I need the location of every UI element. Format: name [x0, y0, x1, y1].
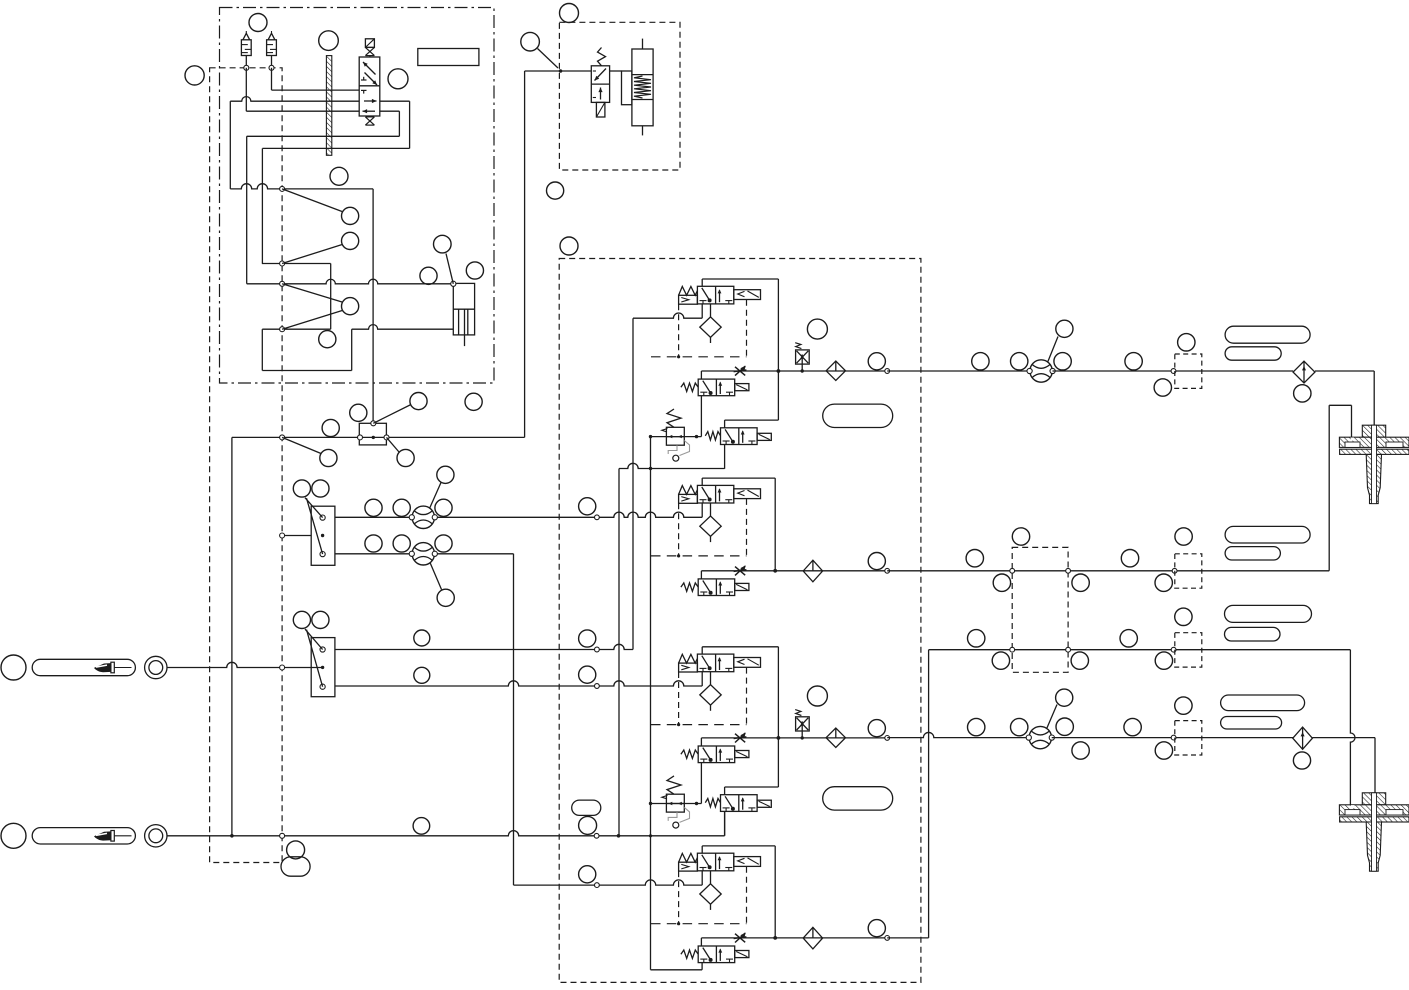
balloon M2 a: [293, 611, 310, 628]
wire leader M1 A: [305, 498, 323, 518]
wire group1 input: [633, 313, 702, 318]
wire leader row3: [282, 284, 342, 302]
valve G2.2 3/2 spring: [698, 579, 735, 596]
balloon M1 a: [293, 480, 310, 497]
label line1 hose big: [1225, 326, 1310, 343]
balloon line3 e: [1175, 608, 1192, 625]
valve G3.3 3/2 spring: [721, 795, 758, 812]
node line2 port3: [1172, 568, 1177, 573]
balloon line4 d: [1124, 718, 1141, 735]
wire supply to valve V1: [230, 97, 359, 102]
regulator G3: [666, 794, 684, 812]
check diamond line1: [1293, 361, 1315, 383]
wire G4 output line: [701, 937, 887, 939]
balloon relief G3: [807, 686, 827, 706]
balloon line554 b: [393, 535, 410, 552]
balloon line517 a: [365, 499, 382, 516]
spring valve V2: [598, 48, 606, 66]
wire leader row4: [282, 311, 342, 330]
balloon tee float a: [350, 404, 367, 421]
node line517 test port: [595, 515, 600, 520]
wire G1 v2 drop: [700, 396, 702, 437]
wire line1 c: [1176, 370, 1293, 372]
node line3 port1: [1010, 647, 1015, 652]
wire line2 riser: [1328, 405, 1330, 571]
node tee center: [372, 436, 375, 439]
flow control FC2: [412, 543, 434, 565]
wire line2 a: [887, 570, 1329, 572]
wire lever2 line: [167, 831, 724, 836]
wire drop x513: [513, 554, 515, 885]
enclosure supply dashed box: [210, 68, 283, 863]
label line3 hose big: [1225, 605, 1312, 622]
wire G2 v1 inlet up: [701, 503, 703, 517]
regulator G1 drain: [668, 445, 677, 454]
balloon above row1: [330, 167, 348, 185]
port quick coupling 2: [145, 825, 167, 847]
wire loop B drop: [246, 136, 248, 283]
filter G4 diamond: [700, 884, 721, 904]
pilot line G4 left: [678, 871, 680, 924]
spring valve G4.1: [679, 853, 698, 862]
wire drop x619: [618, 469, 620, 836]
wire G3 v2 drop: [700, 763, 702, 804]
label line2 hose big: [1225, 526, 1310, 543]
wire G1 bottom line: [619, 463, 725, 468]
solenoid valve G3.1: [734, 658, 761, 668]
wire G1 v2 output: [700, 371, 702, 379]
wire group3 input: [335, 681, 702, 686]
balloon flow control FC1: [437, 466, 454, 483]
enclosure shut-off unit (dashed box): [559, 22, 680, 170]
node G1 output test: [885, 369, 890, 374]
balloon line517 b: [393, 499, 410, 516]
manifold block M2: [311, 638, 335, 697]
wire G1 regulator line: [651, 436, 702, 438]
balloon line3 b: [992, 652, 1009, 669]
label line4 hose big: [1221, 695, 1305, 711]
node shutoff junction: [559, 69, 563, 73]
node tee port top: [371, 421, 376, 426]
label cluster box stadium: [572, 800, 601, 815]
node line3 port3: [1171, 647, 1176, 652]
node lever2 junction: [280, 833, 285, 838]
node line2 port1: [1010, 568, 1015, 573]
balloon cluster left circle: [287, 841, 305, 859]
balloon line3 a: [968, 630, 985, 647]
wire riser x633: [632, 318, 634, 649]
balloon output G4: [868, 920, 885, 937]
spring valve G3.3: [705, 799, 720, 807]
label stadium G3: [823, 787, 893, 810]
wire leader flow control FC4: [1047, 705, 1058, 730]
balloon tee right: [397, 449, 414, 466]
valve G1.3 3/2 spring: [721, 428, 758, 445]
spring valve G2.1: [679, 486, 698, 495]
solenoid V1 upper: [365, 39, 374, 48]
node tee port left: [358, 435, 363, 440]
balloon row2 mid: [413, 818, 430, 835]
wire G3 v3 bottom: [724, 811, 726, 835]
wire G3 v3 top: [724, 787, 726, 795]
balloon lever 1: [1, 655, 26, 680]
filter G2 diamond: [700, 516, 721, 536]
balloon output G2: [868, 553, 885, 570]
wire row2 bus: [262, 263, 331, 265]
balloon row1: [342, 207, 359, 224]
balloon line2 b: [1012, 528, 1029, 545]
spindle nozzle SP1: [1362, 425, 1385, 437]
hand lever 1: [32, 659, 135, 675]
label line4 hose small: [1221, 717, 1282, 730]
wire valve V2 to brake: [610, 70, 622, 72]
wire leader M2 A: [305, 629, 323, 649]
balloon line1 e: [1178, 334, 1195, 351]
valve V2 shut-off 2/2: [591, 66, 609, 103]
wire tee through line: [232, 436, 525, 438]
enclosure line1 small box: [1175, 354, 1202, 388]
wire G4 collector riser: [702, 845, 775, 847]
valve G2.1 3/2 solenoid: [697, 485, 733, 503]
wire row1 bus: [230, 184, 373, 189]
pilot line G4 right: [746, 867, 748, 924]
wire group4 input: [514, 880, 703, 885]
wire loop A drop: [261, 148, 263, 263]
wire G3 v2 output: [700, 738, 702, 746]
solenoid valve G2.2: [735, 583, 749, 590]
node M1 port B: [320, 552, 325, 557]
flow control FC1 port R: [432, 515, 437, 520]
balloon top mufflers: [249, 14, 267, 32]
balloon line4 a: [968, 718, 985, 735]
flow control FC4 port L: [1026, 735, 1031, 740]
balloon cylinder c: [466, 262, 483, 279]
wire G1 output line: [701, 370, 887, 372]
balloon line3 f: [1155, 652, 1172, 669]
node group3 input test: [595, 684, 600, 689]
wire G4 v2 bottom: [701, 963, 703, 970]
check diamond G1: [826, 361, 845, 380]
balloon tee float b: [322, 419, 339, 436]
spring valve G3.1: [679, 654, 698, 663]
wire tee left drop: [231, 437, 233, 835]
regulator G1: [666, 427, 684, 445]
balloon M1 b: [312, 480, 329, 497]
wire row4 to cylinder: [352, 325, 454, 330]
node line2 port2: [1066, 568, 1071, 573]
balloon top centre: [560, 4, 579, 23]
wire drop to tee block: [372, 189, 374, 423]
pilot line G1 right: [746, 300, 748, 357]
wire line1 b: [1053, 370, 1174, 372]
flow control FC4 port R: [1049, 735, 1054, 740]
wire line1 a: [887, 370, 1029, 372]
wire G1 v1 output: [701, 279, 703, 286]
wire M1 supply: [282, 535, 311, 537]
wire G3 bottom drop: [724, 811, 726, 835]
enclosure connector block (dashed): [1012, 547, 1068, 672]
wire muffler S2 to valve V1 port: [271, 68, 273, 90]
balloon tee top: [410, 393, 427, 410]
wire leader tee top: [373, 405, 411, 424]
spring valve G1.2: [681, 383, 698, 391]
balloon big box corner: [560, 237, 578, 255]
wire leader cylinder top: [446, 254, 453, 284]
balloon row2: [342, 232, 359, 249]
muffler S1: [241, 40, 251, 56]
wire G1 collector riser: [702, 278, 778, 280]
balloon line4 b: [1011, 718, 1028, 735]
balloon line1 d: [1125, 353, 1142, 370]
node line3 port2: [1066, 647, 1071, 652]
node M2 centre: [321, 666, 324, 669]
relief valve G3: [796, 717, 810, 731]
wire G4 v1 filter stub: [710, 871, 712, 885]
balloon group3 input b: [579, 666, 596, 683]
wire loop A out: [380, 100, 410, 102]
pilot valve V2: [596, 102, 605, 117]
balloon line2 g: [1155, 574, 1172, 591]
balloon row3: [342, 298, 359, 315]
wire loop B out: [380, 110, 400, 112]
wire G2 v1 output: [701, 478, 703, 485]
wire line3 drop: [1350, 650, 1355, 805]
pilot line G3 bottom: [651, 724, 747, 726]
node M1 port A: [320, 515, 325, 520]
label line3 hose small: [1225, 627, 1281, 641]
solenoid valve G1.3: [757, 433, 771, 440]
wire G2 v1 filter stub: [710, 503, 712, 517]
node tee port right: [384, 435, 389, 440]
throttle G1 (star): [734, 366, 747, 375]
balloon line3 c: [1071, 652, 1088, 669]
wire G1 v1 filter stub: [710, 304, 712, 318]
filter G1 diamond: [700, 317, 721, 337]
wire leader row1: [282, 189, 342, 212]
wire line4 a: [887, 732, 1029, 737]
wire leader M2 B: [307, 630, 323, 687]
solenoid valve G4.2: [735, 951, 749, 958]
node tee junction left dashed: [280, 435, 285, 440]
balloon line1 a: [972, 353, 989, 370]
wire G1 v3 top: [724, 420, 726, 428]
valve G1.2 3/2 spring: [698, 379, 735, 396]
valve G4.2 3/2 spring: [698, 946, 735, 963]
pilot line G2 bottom: [651, 555, 747, 557]
solenoid valve G3.3: [757, 800, 771, 807]
node group4 input test: [595, 883, 600, 888]
pilot line G3 left: [678, 672, 680, 725]
wire drop x650: [650, 437, 652, 970]
check diamond G2: [803, 560, 822, 582]
node M2 port B: [320, 684, 325, 689]
hand lever 2: [32, 828, 135, 844]
balloon line4 c: [1056, 718, 1073, 735]
balloon flow control FC2: [437, 589, 454, 606]
wire leader flow control FC1: [430, 483, 442, 509]
balloon line3 d: [1120, 630, 1137, 647]
wire lever1 line: [167, 662, 322, 667]
cylinder C1 (assembly): [453, 283, 474, 335]
solenoid valve G1.2: [735, 384, 749, 391]
wire G2 collector riser: [702, 477, 775, 479]
balloon output G1: [868, 353, 885, 370]
balloon line649 b: [579, 630, 596, 647]
manifold tee block: [359, 423, 386, 445]
balloon tee junction: [320, 449, 337, 466]
filter G3 diamond: [700, 685, 721, 705]
balloon cylinder b: [420, 267, 437, 284]
balloon line554 a: [365, 535, 382, 552]
node M1 supply junction: [280, 533, 285, 538]
brake cylinder (spring): [632, 49, 653, 126]
enclosure line2 small box: [1175, 554, 1202, 588]
mounting panel (hatched bar): [326, 56, 331, 156]
check diamond line4: [1293, 727, 1313, 749]
node lever2 x619: [617, 834, 621, 838]
pilot line G4 bottom: [651, 923, 747, 925]
wire leader shutoff: [538, 49, 559, 69]
wire leader tee right: [387, 437, 400, 452]
flow control FC1 port L: [409, 515, 414, 520]
solenoid V1 lower: [369, 115, 371, 118]
wire shutoff supply: [525, 70, 592, 72]
pilot line G3 right: [746, 668, 748, 725]
balloon group4 input a: [579, 866, 596, 883]
wire G3 v1 inlet up: [701, 672, 703, 686]
node lever2 test port: [594, 833, 599, 838]
wire leader flow control FC3: [1048, 337, 1059, 363]
wire G3 v1 output: [701, 647, 703, 654]
valve V1 3/2 (assembly): [359, 57, 380, 116]
balloon line2 d: [1072, 574, 1089, 591]
balloon lever 2: [1, 823, 26, 848]
balloon valve V1: [388, 69, 408, 89]
balloon line4 e: [1175, 697, 1192, 714]
spring valve G1.3: [705, 432, 720, 440]
balloon line1 f: [1154, 379, 1171, 396]
valve G3.2 3/2 spring: [698, 746, 735, 763]
balloon line4 g: [1072, 742, 1089, 759]
wire line M1B: [335, 553, 514, 555]
check diamond G3: [826, 728, 845, 747]
wire G2 output line: [701, 570, 887, 572]
wire G4 v1 output: [701, 846, 703, 853]
balloon flow control FC3: [1056, 320, 1073, 337]
node line4 port: [1171, 735, 1176, 740]
node G3 collector junction: [777, 736, 781, 740]
node cylinder port: [451, 281, 456, 286]
regulator G3 drain: [668, 812, 677, 821]
balloon shutoff unit low: [547, 182, 564, 199]
solenoid valve G2.1: [734, 489, 761, 499]
balloon line517 d: [579, 498, 596, 515]
label rectangle: [418, 49, 479, 66]
balloon line2 e: [1121, 550, 1138, 567]
pilot line G2 left: [678, 503, 680, 556]
solenoid valve G3.2: [735, 751, 749, 758]
balloon line2 c: [993, 574, 1010, 591]
spring valve G1.1: [679, 287, 698, 296]
spring valve G3.2: [681, 750, 698, 758]
wire row4 loop: [261, 329, 263, 370]
relief valve G1: [796, 350, 810, 364]
check diamond G4: [803, 927, 822, 949]
node lever2 x650: [649, 834, 652, 837]
throttle G2 (star): [734, 566, 747, 575]
wire muffler S1 to valve V1 exhaust: [245, 68, 247, 111]
balloon cylinder a: [434, 235, 452, 253]
balloon line1 diamond: [1294, 385, 1311, 402]
flow control FC4: [1029, 726, 1051, 748]
balloon line2 a: [966, 550, 983, 567]
node G4 riser junction: [773, 936, 777, 940]
flow control FC2 port R: [432, 551, 437, 556]
node row3 junction: [280, 281, 285, 286]
wire line M2A: [335, 644, 633, 649]
flow control FC3: [1030, 360, 1052, 382]
balloon hatch bar: [319, 31, 339, 51]
balloon cluster box circle: [579, 816, 597, 834]
wire leader M1 B: [307, 498, 323, 554]
flow control FC3 port L: [1027, 368, 1032, 373]
balloon group3 input a: [414, 667, 430, 683]
pilot line G2 right: [746, 499, 748, 556]
enclosure pilot-control assembly (dash-dot box): [220, 8, 495, 384]
solenoid valve G4.1: [734, 857, 761, 867]
balloon line4 diamond: [1293, 752, 1310, 769]
node line1 port: [1171, 369, 1176, 374]
balloon line1 b: [1011, 353, 1028, 370]
wire tee riser to shutoff unit: [524, 71, 526, 437]
balloon left edge: [185, 66, 204, 85]
wire row2 drop: [330, 264, 332, 330]
pilot line G1 bottom: [651, 356, 747, 358]
label stadium G1: [823, 404, 893, 427]
port quick coupling 1: [145, 656, 167, 678]
wire leader tee dashed junction: [282, 437, 321, 453]
node G2 output test: [885, 568, 890, 573]
node tee drop join row2: [230, 834, 234, 838]
balloon shutoff: [521, 32, 540, 51]
balloon line2 f: [1175, 528, 1192, 545]
solenoid valve G1.1: [734, 290, 761, 300]
wire leader flow control FC2: [430, 563, 442, 590]
balloon line554 c: [435, 535, 452, 552]
wire leader row2: [282, 245, 342, 264]
wire G2 v2 output: [700, 571, 702, 579]
wire line4 b: [1052, 737, 1174, 739]
flow control FC3 port R: [1050, 368, 1055, 373]
wire G1 v1 inlet up: [701, 304, 703, 318]
label cluster left stadium: [281, 857, 310, 876]
valve G1.1 3/2 solenoid: [697, 286, 733, 304]
balloon flow control FC4: [1056, 689, 1073, 706]
node G4 output test: [885, 936, 890, 941]
node M2 port A: [320, 647, 325, 652]
wire line1 d: [1315, 370, 1374, 372]
node muffler S2 port: [269, 65, 274, 70]
wire G3 collector riser: [702, 646, 778, 648]
wire G3 v1 filter stub: [710, 672, 712, 686]
spring valve G2.2: [681, 583, 698, 591]
wire G1 v3 bottom: [724, 445, 726, 469]
node row2 junction: [280, 261, 285, 266]
node row1 junction: [280, 186, 285, 191]
muffler S2: [267, 40, 277, 56]
balloon M2 b: [312, 611, 329, 628]
valve G4.1 3/2 solenoid: [697, 853, 733, 871]
